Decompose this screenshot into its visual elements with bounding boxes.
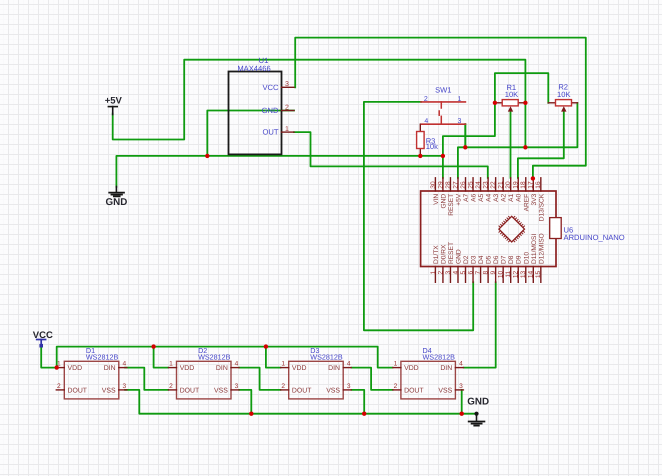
junction GND rail D3 VSS	[362, 412, 366, 416]
IC body diamond decoration (U6)	[499, 216, 525, 242]
svg-text:11: 11	[505, 270, 512, 277]
svg-text:1: 1	[458, 96, 462, 103]
svg-text:9: 9	[490, 270, 497, 274]
svg-text:DOUT: DOUT	[68, 388, 88, 395]
svg-text:D13/SCK: D13/SCK	[538, 193, 545, 221]
svg-text:WS2812B: WS2812B	[86, 352, 119, 361]
svg-text:29: 29	[437, 181, 444, 189]
svg-text:VSS: VSS	[102, 388, 116, 395]
svg-text:GND: GND	[262, 106, 279, 115]
label 10k (R3)	[426, 142, 438, 151]
+5V power flag	[105, 96, 123, 115]
svg-text:RESET: RESET	[448, 194, 455, 216]
svg-text:2: 2	[169, 383, 173, 390]
svg-text:4: 4	[424, 118, 428, 125]
svg-text:A2: A2	[501, 193, 508, 201]
svg-text:VIN: VIN	[433, 194, 440, 205]
svg-text:D4: D4	[478, 255, 485, 264]
svg-text:1: 1	[281, 361, 285, 368]
svg-text:1: 1	[169, 361, 173, 368]
svg-text:D12/MISO: D12/MISO	[538, 233, 545, 264]
junction U1-GND rail	[205, 154, 209, 158]
wire R2 wiper to Arduino A0 (pin19)	[518, 112, 564, 178]
wire VCC flag to D1 VDD	[41, 346, 57, 368]
svg-text:+5V: +5V	[105, 96, 123, 107]
junction Arduino 3V3 pin17	[531, 176, 535, 180]
svg-text:D10: D10	[523, 252, 530, 264]
svg-text:A5: A5	[478, 193, 485, 201]
svg-text:VDD: VDD	[68, 365, 83, 372]
svg-text:22: 22	[490, 181, 497, 189]
label 10K (R2)	[557, 90, 571, 99]
label 10K (R1)	[505, 90, 519, 99]
LED D2 WS2812B	[169, 361, 240, 399]
svg-text:4: 4	[122, 361, 126, 368]
svg-text:17: 17	[528, 181, 535, 189]
junction R1 left	[493, 101, 497, 105]
wire GND net: U1 GND to GND rail	[207, 111, 294, 156]
svg-text:+5V: +5V	[455, 193, 462, 206]
op-amp module U1 MAX4466	[229, 72, 295, 155]
svg-text:D3: D3	[471, 255, 478, 264]
wire D4 DIN to Arduino D6 (pin9)	[464, 282, 496, 367]
svg-text:2: 2	[285, 104, 289, 111]
svg-text:4: 4	[347, 361, 351, 368]
svg-text:GND: GND	[106, 197, 128, 208]
svg-text:A3: A3	[493, 193, 500, 201]
svg-text:MAX4466: MAX4466	[237, 64, 270, 73]
svg-text:2: 2	[394, 383, 398, 390]
label D4	[423, 346, 432, 355]
label WS2812B (D2)	[198, 352, 231, 361]
LED D1 WS2812B	[56, 361, 127, 399]
wire D4 VSS riser	[461, 390, 463, 414]
svg-text:VDD: VDD	[404, 365, 419, 372]
svg-text:VDD: VDD	[180, 365, 195, 372]
VCC power flag	[33, 330, 53, 347]
svg-text:VSS: VSS	[326, 388, 340, 395]
label R1	[506, 83, 516, 92]
label WS2812B (D3)	[310, 352, 343, 361]
svg-text:7: 7	[475, 270, 482, 274]
svg-text:WS2812B: WS2812B	[310, 352, 343, 361]
wire VCC rail over LEDs	[57, 347, 393, 368]
wire VCC drop to D3 VDD	[266, 347, 281, 368]
junction VCC rail D2 drop	[151, 344, 155, 348]
svg-text:5: 5	[460, 270, 467, 274]
junction SW1 pin3 / +5V rail	[463, 145, 467, 149]
svg-text:10k: 10k	[426, 142, 438, 151]
svg-text:D9: D9	[516, 255, 523, 264]
junction VCC rail D3 drop	[264, 344, 268, 348]
svg-text:15: 15	[535, 270, 542, 278]
svg-text:4: 4	[459, 361, 463, 368]
LED D4 WS2812B	[393, 361, 464, 399]
svg-text:23: 23	[483, 181, 490, 189]
svg-text:1: 1	[430, 270, 437, 274]
svg-text:18: 18	[520, 181, 527, 189]
svg-text:DOUT: DOUT	[404, 388, 424, 395]
svg-text:24: 24	[475, 181, 482, 189]
junction GND rail D4 VSS	[460, 412, 464, 416]
label D3	[310, 346, 319, 355]
svg-text:DIN: DIN	[440, 365, 452, 372]
svg-text:21: 21	[498, 181, 505, 189]
label R3	[426, 137, 436, 146]
svg-text:A1: A1	[508, 193, 515, 201]
wire D3 DIN to D4 DOUT	[352, 368, 393, 390]
svg-text:OUT: OUT	[262, 128, 278, 137]
resistor R2 (pot)	[548, 100, 577, 112]
wire SW1 pin3 stub-down	[464, 124, 466, 147]
svg-text:2: 2	[424, 96, 428, 103]
wire D1 DIN to D2 DOUT	[125, 368, 168, 390]
wire VCC drop to D2 VDD	[154, 347, 169, 368]
label D2	[198, 346, 207, 355]
svg-text:10K: 10K	[505, 90, 519, 99]
svg-text:GND: GND	[467, 396, 489, 407]
svg-text:8: 8	[483, 270, 490, 274]
svg-text:D5: D5	[486, 255, 493, 264]
svg-text:A4: A4	[486, 193, 493, 201]
wire D2 DIN to D3 DOUT	[239, 368, 280, 390]
svg-text:25: 25	[467, 181, 474, 189]
svg-text:GND: GND	[455, 249, 462, 264]
label ARDUINO_NANO	[564, 233, 625, 242]
svg-text:1: 1	[394, 361, 398, 368]
wire U1 VCC to Arduino 3V3 (pin17)	[295, 38, 586, 179]
svg-text:WS2812B: WS2812B	[423, 352, 456, 361]
USB connector rectangle (U6)	[550, 218, 562, 239]
svg-text:D11/MOSI: D11/MOSI	[531, 234, 538, 264]
resistor R1 (pot)	[495, 100, 526, 112]
wire R1 wiper to Arduino A1 (pin20)	[510, 112, 512, 178]
junction VCC / D1 VDD	[55, 365, 59, 369]
label SW1	[435, 86, 451, 95]
svg-text:2: 2	[281, 383, 285, 390]
label U6	[564, 225, 574, 234]
svg-text:D6: D6	[493, 255, 500, 264]
svg-text:3: 3	[458, 118, 462, 125]
svg-text:10: 10	[498, 270, 505, 278]
svg-text:27: 27	[452, 181, 459, 189]
junction R3 bottom / GND rail	[418, 154, 422, 158]
ground GND flag bottom-right	[467, 396, 489, 425]
wire GND net: main rail to GND flag and Arduino pin29	[116, 156, 443, 187]
svg-text:D0/RX: D0/RX	[440, 244, 447, 264]
svg-text:DIN: DIN	[216, 365, 228, 372]
svg-text:16: 16	[535, 181, 542, 189]
junction R1 right riser / +5V rail	[523, 145, 527, 149]
svg-text:14: 14	[528, 270, 535, 278]
svg-text:VDD: VDD	[292, 365, 307, 372]
svg-text:3: 3	[459, 383, 463, 390]
svg-text:DIN: DIN	[104, 365, 116, 372]
svg-text:ARDUINO_NANO: ARDUINO_NANO	[564, 233, 625, 242]
svg-text:2: 2	[437, 270, 444, 274]
svg-text:A6: A6	[471, 193, 478, 201]
svg-text:20: 20	[505, 181, 512, 189]
label U1	[259, 56, 269, 65]
svg-text:13: 13	[520, 270, 527, 278]
svg-text:3: 3	[347, 383, 351, 390]
label R2	[558, 83, 568, 92]
wire +5V net: horizontal to SW1 pin3 / pin27 riser / R2 right	[458, 103, 578, 178]
junction R1 right	[523, 101, 527, 105]
svg-text:AREF: AREF	[523, 194, 530, 212]
svg-text:WS2812B: WS2812B	[198, 352, 231, 361]
svg-text:D2: D2	[463, 255, 470, 264]
svg-text:30: 30	[430, 181, 437, 189]
svg-text:D1/TX: D1/TX	[433, 245, 440, 264]
svg-text:3: 3	[122, 383, 126, 390]
ground GND flag top-left	[106, 187, 128, 209]
svg-text:DIN: DIN	[328, 365, 340, 372]
svg-text:6: 6	[467, 270, 474, 274]
svg-text:RESET: RESET	[448, 242, 455, 264]
resistor R3	[417, 124, 425, 156]
label WS2812B (D4)	[423, 352, 456, 361]
svg-text:10K: 10K	[557, 90, 571, 99]
svg-text:12: 12	[513, 270, 520, 278]
svg-text:VSS: VSS	[438, 388, 452, 395]
svg-text:D8: D8	[508, 255, 515, 264]
label WS2812B (D1)	[86, 352, 119, 361]
wire SW1 pin2 to Arduino D3 (pin6)	[364, 102, 473, 330]
svg-text:A7: A7	[463, 193, 470, 201]
junction GND rail / pin29 riser	[441, 154, 445, 158]
wire GND net: R1 left branch	[443, 103, 495, 156]
svg-text:3: 3	[285, 81, 289, 88]
wire D2 VSS riser	[239, 390, 251, 414]
wire D3 VSS riser	[352, 390, 365, 414]
svg-text:VCC: VCC	[262, 83, 279, 92]
LED D3 WS2812B	[281, 361, 352, 399]
svg-text:VSS: VSS	[214, 388, 228, 395]
junction GND rail D2 VSS	[249, 412, 253, 416]
svg-text:4: 4	[235, 361, 239, 368]
svg-text:3: 3	[235, 383, 239, 390]
svg-text:19: 19	[513, 181, 520, 189]
svg-text:A0: A0	[516, 193, 523, 201]
wire +5V net: +5V flag to R1 right / top rail	[113, 60, 526, 148]
label D1	[86, 346, 95, 355]
wire GND net: R1 left to R2 left bridge	[495, 73, 548, 103]
switch SW1	[421, 96, 465, 125]
svg-text:28: 28	[445, 181, 452, 189]
svg-text:GND: GND	[440, 194, 447, 209]
svg-text:3: 3	[445, 270, 452, 274]
svg-text:2: 2	[57, 383, 61, 390]
label MAX4466	[237, 64, 270, 73]
svg-text:SW1: SW1	[435, 86, 451, 95]
svg-text:4: 4	[452, 270, 459, 274]
svg-text:1: 1	[285, 126, 289, 133]
svg-text:DOUT: DOUT	[180, 388, 200, 395]
svg-text:3V3: 3V3	[531, 193, 538, 205]
svg-text:D7: D7	[501, 255, 508, 264]
microcontroller U6 ARDUINO_NANO	[421, 178, 556, 282]
svg-text:DOUT: DOUT	[292, 388, 312, 395]
svg-text:26: 26	[460, 181, 467, 189]
wire GND rail under LEDs	[125, 390, 476, 414]
wire U1 OUT to Arduino A3 (pin23)	[294, 132, 488, 178]
